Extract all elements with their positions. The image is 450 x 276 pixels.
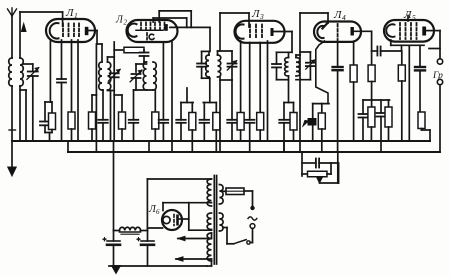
svg-text:5: 5 — [412, 13, 416, 22]
svg-text:Л: Л — [251, 8, 260, 20]
svg-text:Л: Л — [333, 9, 342, 21]
svg-text:4: 4 — [342, 13, 346, 22]
svg-text:6: 6 — [156, 208, 160, 216]
svg-text:Л: Л — [65, 7, 74, 19]
svg-text:1: 1 — [74, 11, 78, 20]
svg-text:3: 3 — [259, 12, 264, 21]
svg-text:2: 2 — [124, 19, 128, 27]
